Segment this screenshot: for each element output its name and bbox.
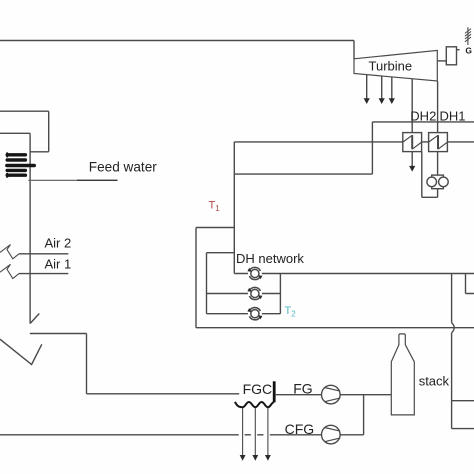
svg-text:Turbine: Turbine (369, 58, 413, 73)
svg-text:FGC: FGC (243, 381, 273, 397)
svg-text:DH1: DH1 (440, 108, 466, 123)
wire DH2 condensate arrow (409, 152, 415, 172)
wire flue gas duct to FGC (87, 393, 240, 395)
wire DH return upper line (372, 121, 474, 123)
wire DH network return line (234, 273, 474, 275)
wire DH supply line through heaters (234, 141, 474, 143)
svg-text:G: G (465, 45, 472, 55)
wire pump header left (207, 253, 235, 314)
pump DH 2 (circulation) (247, 287, 262, 301)
wire right riser with line hop (451, 274, 453, 323)
air 2 inlet break symbol (0, 245, 19, 259)
flue gas condenser FGC bar (273, 381, 276, 402)
flue gas condenser FGC coil (235, 402, 274, 407)
svg-text:T1: T1 (209, 200, 221, 214)
svg-text:DH2: DH2 (410, 108, 436, 123)
wire FGC drain 2 (252, 408, 258, 461)
wire main steam line drop to turbine (353, 41, 355, 60)
boiler hopper (0, 339, 42, 364)
pump DH 3 (circulation) (247, 307, 262, 321)
svg-text:Air 1: Air 1 (45, 256, 72, 271)
wire boiler wall top (0, 132, 30, 134)
wire air 1 line (19, 273, 68, 275)
heat exchanger DH1 (429, 133, 448, 152)
wire long flue return line (196, 327, 474, 329)
fan FG (322, 385, 341, 404)
svg-text:CFG: CFG (285, 421, 315, 437)
pump condensate (gear pump) (427, 175, 448, 189)
svg-text:DH network: DH network (236, 251, 304, 266)
wire DH return vertical (371, 122, 373, 174)
boiler top steam drum loop (0, 111, 49, 152)
wire condensate bottom run (422, 196, 438, 198)
wire generator shaft (437, 60, 446, 62)
wire pump row 3 (207, 313, 281, 315)
wire return branch right corner (466, 274, 474, 294)
wire bottom right line (452, 428, 474, 430)
wire FGC drain 1 (240, 408, 246, 461)
wire DH supply riser (233, 142, 235, 274)
svg-text:stack: stack (419, 374, 450, 389)
wire pump outlet (437, 189, 439, 198)
wire FG/CFG junction riser (363, 395, 365, 435)
fan CFG (322, 425, 341, 444)
wire flue gas duct horizontal (30, 333, 87, 335)
wire pump header right (279, 274, 281, 314)
wire right stub (452, 400, 474, 402)
wire flue gas duct vertical (86, 334, 88, 394)
wire extraction arrow 1 (364, 75, 370, 104)
wire extraction arrow 3 (389, 77, 395, 104)
wire pump row 2 (207, 293, 281, 295)
wire main steam line horizontal (0, 40, 354, 42)
grid connection symbol (465, 27, 471, 45)
wire CFG recirculation line (0, 434, 364, 436)
wire air 2 line (19, 253, 68, 255)
wire return header corner upper (196, 228, 234, 328)
wire DH1 condensate to DH2 riser (421, 152, 423, 198)
svg-text:Feed water: Feed water (89, 160, 157, 175)
wire DH return lower line (234, 173, 372, 175)
svg-text:FG: FG (293, 380, 312, 396)
wire extraction arrow 2 (379, 76, 385, 104)
wire boiler wall (29, 133, 31, 323)
wire boiler wall end tick (30, 314, 39, 324)
wire feed water line (28, 179, 117, 181)
wire pump inlet (437, 152, 439, 175)
superheater coil (7, 153, 34, 176)
wire turbine exhaust to DH1 (437, 81, 439, 133)
wire generator stub (457, 49, 460, 51)
turbine (354, 50, 437, 81)
stack (391, 334, 414, 415)
generator G box (446, 47, 456, 65)
wire FGC drain 3 (265, 408, 271, 461)
wire FG line to stack (276, 394, 392, 396)
pump DH 1 (circulation) (247, 267, 262, 281)
svg-text:T2: T2 (285, 305, 297, 319)
wire extraction to DH2 (411, 79, 413, 133)
air 1 inlet break symbol (0, 264, 19, 278)
heat exchanger DH2 (403, 133, 422, 152)
svg-text:Air 2: Air 2 (45, 236, 72, 251)
